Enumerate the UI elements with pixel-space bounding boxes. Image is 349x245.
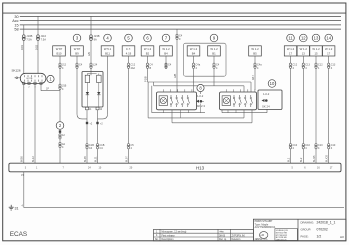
svg-text:B11: B11 <box>105 51 110 55</box>
svg-text:17: 17 <box>327 51 331 55</box>
svg-text:13: 13 <box>302 51 306 55</box>
svg-text:B1: B1 <box>212 51 216 55</box>
svg-text:1-0-2: 1-0-2 <box>263 92 270 96</box>
svg-text:A3: A3 <box>340 235 344 239</box>
svg-text:6L12: 6L12 <box>31 156 35 162</box>
svg-text:A/B: A/B <box>173 74 177 78</box>
svg-text:1/2: 1/2 <box>317 235 322 239</box>
svg-text:PAGE:: PAGE: <box>301 235 309 239</box>
svg-text:4.19: 4.19 <box>126 51 132 55</box>
svg-text:AUVTHASBMNOU4: AUVTHASBMNOU4 <box>255 226 276 229</box>
svg-text:15: 15 <box>314 51 318 55</box>
svg-text:Deletion: Deletion <box>232 238 241 241</box>
svg-text:B2: B2 <box>146 51 150 55</box>
svg-text:070202: 070202 <box>317 228 328 232</box>
svg-text:7.5A: 7.5A <box>26 37 32 41</box>
svg-text:First release: First release <box>162 234 176 237</box>
svg-text:6005: 6005 <box>20 156 24 162</box>
svg-text:P1/B: P1/B <box>143 76 147 82</box>
svg-text:4A2: 4A2 <box>131 67 136 70</box>
svg-text:17: 17 <box>289 51 293 55</box>
svg-text:Rel. rq.: Rel. rq. <box>219 238 227 241</box>
svg-text:11: 11 <box>288 36 293 41</box>
svg-text:16/2: 16/2 <box>34 44 38 50</box>
svg-text:J23B: J23B <box>94 34 100 38</box>
svg-text:SK 2.3: SK 2.3 <box>197 104 206 108</box>
svg-text:SK 24: SK 24 <box>262 104 270 108</box>
svg-text:1P: 1P <box>46 88 49 91</box>
svg-text:B9: B9 <box>75 51 79 55</box>
svg-text:Monogram_12 am(img): Monogram_12 am(img) <box>162 231 187 234</box>
svg-text:6L11: 6L11 <box>93 156 97 162</box>
svg-text:9/17: 9/17 <box>251 74 255 80</box>
svg-text:SK126: SK126 <box>12 68 21 72</box>
svg-text:6L2: 6L2 <box>299 157 303 162</box>
svg-text:2EMSFYJTL: 2EMSFYJTL <box>255 239 269 241</box>
svg-text:9A: 9A <box>94 37 97 41</box>
svg-text:No.: No. <box>155 238 159 241</box>
svg-text:DRAWING:: DRAWING: <box>301 220 315 224</box>
svg-text:B10: B10 <box>57 51 62 55</box>
svg-text:242018_1_1: 242018_1_1 <box>317 220 336 224</box>
svg-text:12: 12 <box>301 36 306 41</box>
svg-text:ZYP3P.N./M.: ZYP3P.N./M. <box>232 234 246 237</box>
svg-text:6L05: 6L05 <box>83 156 87 162</box>
svg-text:10: 10 <box>270 81 275 86</box>
svg-text:eM: eM <box>260 233 264 237</box>
svg-text:B4: B4 <box>164 51 168 55</box>
svg-text:J10B: J10B <box>26 34 32 38</box>
svg-text:ECAS: ECAS <box>10 231 27 238</box>
svg-text:13: 13 <box>314 36 319 41</box>
svg-text:7.5A: 7.5A <box>41 37 47 41</box>
svg-text:6L/15: 6L/15 <box>312 155 316 162</box>
svg-text:GROUP:: GROUP: <box>301 227 312 231</box>
svg-text:~#m: ~#m <box>219 231 224 234</box>
svg-text:08-06: 08-06 <box>219 234 226 237</box>
svg-text:6L/C6: 6L/C6 <box>325 155 329 162</box>
svg-text:14: 14 <box>326 36 331 41</box>
svg-text:6L07: 6L07 <box>124 156 128 162</box>
svg-text:B4: B4 <box>192 51 196 55</box>
svg-text:H13: H13 <box>196 166 205 171</box>
svg-text:Acc: Acc <box>12 19 18 23</box>
svg-text:Description: Description <box>162 238 175 241</box>
svg-text:5M9-W4 25: 5M9-W4 25 <box>276 240 288 242</box>
svg-text:1-0-2: 1-0-2 <box>197 94 204 98</box>
svg-text:31: 31 <box>15 207 19 211</box>
svg-text:Type: Maple: Type: Maple <box>255 223 269 226</box>
svg-text:A/9: A/9 <box>87 52 91 56</box>
svg-text:B5: B5 <box>253 51 257 55</box>
svg-text:HC2B: HC2B <box>27 78 33 80</box>
svg-text:6L1: 6L1 <box>286 157 290 162</box>
svg-text:58: 58 <box>14 28 18 32</box>
svg-text:L24: L24 <box>93 64 98 67</box>
svg-text:J110: J110 <box>41 34 47 38</box>
svg-text:16/1: 16/1 <box>20 44 24 50</box>
